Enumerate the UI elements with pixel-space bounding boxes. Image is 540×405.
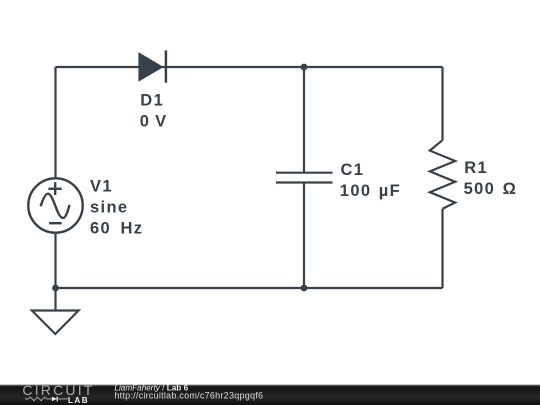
- svg-text:http://circuitlab.com/c76hr23q: http://circuitlab.com/c76hr23qpgqf6: [114, 391, 263, 401]
- svg-text:sine: sine: [90, 198, 128, 216]
- svg-text:LAB: LAB: [68, 396, 89, 405]
- svg-text:R1: R1: [464, 159, 488, 177]
- svg-text:C1: C1: [341, 161, 365, 179]
- svg-text:100 µF: 100 µF: [340, 182, 401, 200]
- svg-text:60 Hz: 60 Hz: [90, 219, 143, 237]
- svg-text:V1: V1: [90, 178, 113, 196]
- svg-text:500 Ω: 500 Ω: [464, 180, 518, 198]
- svg-text:D1: D1: [140, 92, 164, 110]
- svg-text:0 V: 0 V: [140, 113, 167, 131]
